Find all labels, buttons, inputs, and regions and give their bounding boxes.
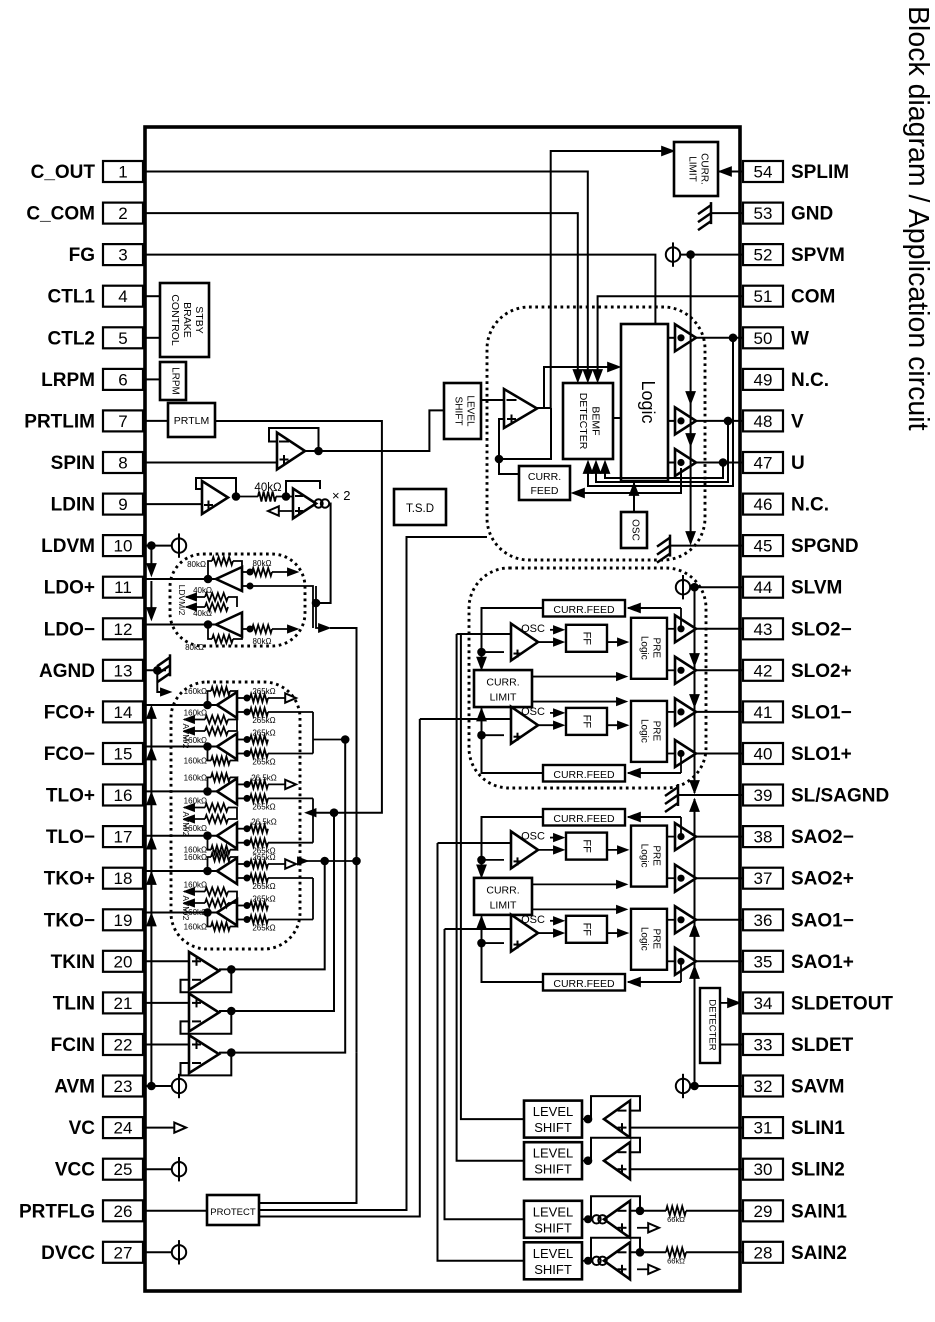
LDVM divider network (dotted) bbox=[170, 554, 305, 646]
pin 18 TKO+ bbox=[103, 868, 143, 889]
T.S.D block bbox=[394, 489, 446, 525]
PRE Logic 2 bbox=[631, 909, 667, 970]
pin 42 SLO2+ bbox=[743, 660, 783, 681]
output buffer bbox=[675, 906, 696, 933]
wire BEMF to Logic bbox=[613, 417, 621, 419]
wire pin9 LDIN to op-amp bbox=[145, 503, 202, 505]
svg-text:Logic: Logic bbox=[639, 927, 650, 951]
wire curr.feed bottom bbox=[628, 772, 681, 774]
LRPM block bbox=[160, 362, 186, 400]
feedback loop bbox=[181, 1053, 232, 1076]
svg-text:VC: VC bbox=[69, 1118, 96, 1139]
wire OSC1 out to FF bbox=[538, 849, 560, 851]
svg-text:STBY: STBY bbox=[193, 306, 205, 333]
LEVEL SHIFT block (row pin idx 27) bbox=[524, 1242, 582, 1279]
svg-text:14: 14 bbox=[114, 703, 133, 722]
svg-text:34: 34 bbox=[754, 994, 773, 1013]
svg-text:2: 2 bbox=[118, 204, 127, 223]
output buffer bbox=[675, 615, 696, 642]
pin 29 SAIN1 bbox=[743, 1200, 783, 1221]
pin 15 FCO- bbox=[103, 743, 143, 764]
svg-text:LRPM: LRPM bbox=[41, 370, 95, 391]
Logic block bbox=[621, 324, 668, 481]
svg-text:21: 21 bbox=[114, 994, 133, 1013]
svg-text:LDO−: LDO− bbox=[44, 619, 95, 640]
svg-text:30: 30 bbox=[754, 1160, 773, 1179]
wire comparator feedback to CURR.FEED bbox=[499, 408, 551, 474]
svg-text:SHIFT: SHIFT bbox=[534, 1162, 572, 1177]
svg-text:SLDET: SLDET bbox=[791, 1035, 854, 1056]
driver W bbox=[675, 324, 696, 351]
wire DETECTER to pin33 SLDET bbox=[720, 1044, 743, 1046]
wire curr.feed bottom bbox=[628, 981, 681, 983]
svg-text:18: 18 bbox=[114, 869, 133, 888]
svg-text:13: 13 bbox=[114, 661, 133, 680]
svg-text:FF: FF bbox=[580, 715, 592, 729]
OSC comparator 2 bbox=[511, 707, 538, 744]
wire pin51 COM to BEMF DETECTER bbox=[598, 296, 743, 380]
pin 24 VC bbox=[103, 1117, 143, 1138]
svg-text:TKIN: TKIN bbox=[51, 952, 95, 973]
BEMF DETECTER block bbox=[563, 383, 613, 459]
svg-text:AVM: AVM bbox=[54, 1077, 95, 1098]
svg-text:FF: FF bbox=[580, 632, 592, 646]
svg-text:160kΩ: 160kΩ bbox=[184, 757, 207, 766]
svg-text:TKO−: TKO− bbox=[44, 910, 95, 931]
wire CL to PRE1 bbox=[532, 883, 622, 885]
svg-text:Logic: Logic bbox=[638, 380, 658, 423]
svg-text:W: W bbox=[791, 328, 809, 349]
svg-text:N.C.: N.C. bbox=[791, 370, 829, 391]
svg-text:TLO+: TLO+ bbox=[46, 786, 95, 807]
FF block 1 bbox=[566, 833, 607, 860]
svg-text:16: 16 bbox=[114, 786, 133, 805]
svg-text:SAO2+: SAO2+ bbox=[791, 869, 854, 890]
wire PRE2 outputs bbox=[667, 919, 675, 921]
wire curr.feed top bbox=[628, 607, 681, 609]
svg-text:6: 6 bbox=[118, 370, 127, 389]
PRE Logic 1 bbox=[631, 618, 667, 679]
pin 31 SLIN1 bbox=[743, 1117, 783, 1138]
wire pin7 to PRTLM bbox=[145, 420, 168, 422]
svg-text:SLO1−: SLO1− bbox=[791, 702, 852, 723]
wire output to pin bbox=[696, 836, 743, 838]
input op-amp bbox=[604, 1142, 630, 1179]
svg-text:OSC: OSC bbox=[521, 706, 545, 718]
svg-text:LDO+: LDO+ bbox=[44, 578, 95, 599]
svg-text:FEED: FEED bbox=[530, 485, 558, 497]
svg-text:SAIN2: SAIN2 bbox=[791, 1243, 847, 1264]
svg-text:10: 10 bbox=[114, 537, 133, 556]
svg-text:FG: FG bbox=[69, 245, 95, 266]
svg-text:OSC: OSC bbox=[521, 831, 545, 843]
ground pin53 GND bbox=[711, 212, 743, 214]
IC outline bbox=[145, 127, 740, 1291]
OSC block (speed) bbox=[621, 512, 647, 548]
FF block 2 bbox=[566, 916, 607, 943]
ground pin39 SL/SAGND bbox=[678, 794, 743, 796]
pin 17 TLO- bbox=[103, 826, 143, 847]
svg-text:SLO2+: SLO2+ bbox=[791, 661, 852, 682]
wire pin54 SPLIM to CURR.LIMIT bbox=[718, 171, 743, 173]
wire pin17 TLO- bbox=[145, 835, 217, 837]
filter amp FCO- bbox=[217, 734, 237, 760]
wire pin21 bbox=[145, 1002, 189, 1004]
svg-text:CURR.FEED: CURR.FEED bbox=[553, 813, 615, 825]
wire comparator output to CURR.LIMIT bbox=[551, 151, 671, 408]
svg-text:AGND: AGND bbox=[39, 661, 95, 682]
svg-text:160kΩ: 160kΩ bbox=[184, 881, 207, 890]
svg-text:SLIN1: SLIN1 bbox=[791, 1118, 845, 1139]
wire pin with 66k resistor bbox=[630, 1251, 666, 1253]
svg-text:N.C.: N.C. bbox=[791, 495, 829, 516]
filter amp FCO+ bbox=[217, 692, 237, 718]
phi terminal pin27 DVCC bbox=[145, 1251, 172, 1253]
CURR. FEED block (speed) bbox=[519, 466, 570, 500]
wire LDO node to filter network riser bbox=[319, 624, 330, 633]
svg-text:37: 37 bbox=[754, 869, 773, 888]
comparator pin20 bbox=[189, 952, 219, 990]
svg-text:DETECTER: DETECTER bbox=[707, 999, 718, 1050]
svg-text:3: 3 bbox=[118, 246, 127, 265]
CURR. LIMIT block (speed) bbox=[674, 142, 718, 196]
LEVEL SHIFT block (speed) bbox=[444, 383, 481, 439]
svg-text:36: 36 bbox=[754, 911, 773, 930]
output buffer bbox=[675, 823, 696, 850]
wire OSC2 out to FF2 bbox=[538, 932, 560, 934]
svg-text:80kΩ: 80kΩ bbox=[253, 637, 272, 646]
svg-text:BRAKE: BRAKE bbox=[181, 302, 193, 338]
output riser bbox=[219, 813, 334, 1011]
svg-text:SAIN1: SAIN1 bbox=[791, 1201, 847, 1222]
phi terminal pin44 SLVM bbox=[676, 580, 690, 594]
svg-text:265kΩ: 265kΩ bbox=[252, 882, 275, 891]
svg-text:SAO1−: SAO1− bbox=[791, 910, 854, 931]
wire SL OSC1 input line bbox=[457, 634, 524, 1161]
svg-text:CURR.: CURR. bbox=[528, 471, 561, 483]
svg-text:DVCC: DVCC bbox=[41, 1243, 95, 1264]
svg-text:80kΩ: 80kΩ bbox=[187, 560, 206, 569]
svg-text:48: 48 bbox=[754, 412, 773, 431]
output buffer bbox=[675, 865, 696, 892]
svg-text:FF: FF bbox=[580, 923, 592, 937]
svg-text:80kΩ: 80kΩ bbox=[185, 643, 204, 652]
svg-text:SLDETOUT: SLDETOUT bbox=[791, 993, 893, 1014]
wire plus input bbox=[499, 419, 504, 459]
CURR. LIMIT block bbox=[474, 878, 532, 915]
svg-text:28: 28 bbox=[754, 1243, 773, 1262]
svg-text:1: 1 bbox=[118, 163, 127, 182]
pin 40 SLO1+ bbox=[743, 743, 783, 764]
svg-text:LDIN: LDIN bbox=[51, 495, 95, 516]
feedback loop bbox=[181, 969, 232, 992]
svg-text:V: V bbox=[791, 411, 804, 432]
wire pin to plus input bbox=[630, 1127, 743, 1129]
pin 43 SLO2- bbox=[743, 618, 783, 639]
output buffer bbox=[675, 948, 696, 975]
pin 48 V bbox=[743, 410, 783, 431]
svg-text:44: 44 bbox=[754, 578, 773, 597]
input op-amp bbox=[604, 1242, 630, 1279]
x2 feedback loop bbox=[286, 481, 320, 497]
pin 7 PRTLIM bbox=[103, 410, 143, 431]
output arrow bbox=[637, 1227, 650, 1229]
pair tie TKO bbox=[312, 878, 314, 920]
STBY BRAKE CONTROL block bbox=[160, 283, 209, 357]
svg-text:45: 45 bbox=[754, 537, 773, 556]
wire OSC2 out to FF2 bbox=[538, 724, 560, 726]
pin 37 SAO2+ bbox=[743, 868, 783, 889]
phi terminal pin10 LDVM bbox=[147, 541, 156, 550]
wire pin1 C_OUT to BEMF DETECTER bbox=[145, 172, 588, 381]
wire output to pin bbox=[696, 919, 743, 921]
wire pin16 TLO+ bbox=[145, 790, 217, 792]
svg-text:SL/SAGND: SL/SAGND bbox=[791, 786, 889, 807]
wire x2 output down to LDVM divider bbox=[316, 504, 331, 604]
svg-text:Logic: Logic bbox=[639, 719, 650, 743]
output riser bbox=[219, 740, 345, 1053]
wire pin6 to LRPM bbox=[145, 378, 160, 380]
wire AGND into filter network bbox=[157, 670, 164, 692]
svg-text:SPLIM: SPLIM bbox=[791, 162, 849, 183]
svg-text:C_COM: C_COM bbox=[26, 204, 95, 225]
wire CL to PRE1 bbox=[532, 676, 622, 678]
filter amp TLO+ bbox=[217, 778, 237, 804]
feedback wire to CURR.FEED bbox=[573, 468, 681, 493]
wire pin to plus input bbox=[630, 1168, 743, 1170]
pin 2 C_COM bbox=[103, 203, 143, 224]
wire comparator to Logic input bbox=[544, 367, 617, 408]
wire FF1 to PRE1 bbox=[607, 849, 624, 851]
pin 33 SLDET bbox=[743, 1034, 783, 1055]
left rail upper bbox=[482, 608, 544, 668]
wire pin5 to STBY bbox=[145, 337, 160, 339]
svg-text:SLO1+: SLO1+ bbox=[791, 744, 852, 765]
pin 49 N.C. bbox=[743, 369, 783, 390]
feedback loop bbox=[591, 1238, 640, 1261]
CURR.FEED (top) bbox=[543, 809, 625, 826]
PROTECT output 1 bbox=[259, 1052, 357, 1203]
pin 54 SPLIM bbox=[743, 161, 783, 182]
pin 36 SAO1- bbox=[743, 909, 783, 930]
svg-text:54: 54 bbox=[754, 163, 773, 182]
op-amp A1 feedback loop bbox=[269, 428, 319, 451]
wire DETECTER to pin34 SLDETOUT bbox=[720, 1002, 734, 1004]
output arrow bbox=[637, 1268, 650, 1270]
wire pin15 FCO- bbox=[145, 746, 217, 748]
pin 10 LDVM bbox=[103, 535, 143, 556]
tap TKO to riser bbox=[300, 860, 357, 862]
svg-text:29: 29 bbox=[754, 1202, 773, 1221]
svg-text:SAO1+: SAO1+ bbox=[791, 952, 854, 973]
wire FF2 to PRE2 bbox=[607, 724, 624, 726]
svg-text:38: 38 bbox=[754, 828, 773, 847]
svg-text:VCC: VCC bbox=[55, 1160, 95, 1181]
feedback loop bbox=[591, 1138, 640, 1161]
wire pin11 LDO+ bbox=[145, 578, 216, 580]
svg-text:SHIFT: SHIFT bbox=[534, 1220, 572, 1235]
svg-text:47: 47 bbox=[754, 454, 773, 473]
wire output to pin bbox=[696, 669, 743, 671]
feedback loop bbox=[591, 1096, 640, 1119]
pin 21 TLIN bbox=[103, 992, 143, 1013]
svg-text:LRPM: LRPM bbox=[170, 367, 181, 395]
FF block 1 bbox=[566, 625, 607, 652]
svg-text:32: 32 bbox=[754, 1077, 773, 1096]
pin 44 SLVM bbox=[743, 577, 783, 598]
svg-text:LEVEL: LEVEL bbox=[533, 1204, 573, 1219]
svg-text:U: U bbox=[791, 453, 805, 474]
svg-text:19: 19 bbox=[114, 911, 133, 930]
svg-text:160kΩ: 160kΩ bbox=[184, 736, 207, 745]
svg-text:160kΩ: 160kΩ bbox=[184, 709, 207, 718]
phi terminal pin23 AVM bbox=[147, 1082, 156, 1091]
svg-text:TLIN: TLIN bbox=[53, 993, 95, 1014]
svg-text:FCO+: FCO+ bbox=[44, 702, 95, 723]
wire PRE1 outputs bbox=[667, 836, 675, 838]
feedback wire U bbox=[605, 463, 723, 479]
LDVM/2 feed arrows bbox=[150, 546, 152, 574]
svg-text:35: 35 bbox=[754, 952, 773, 971]
svg-text:7: 7 bbox=[118, 412, 127, 431]
pin 4 CTL1 bbox=[103, 286, 143, 307]
wire SL OSC2 input line bbox=[420, 718, 511, 720]
pin 39 SL/SAGND bbox=[743, 785, 783, 806]
driver U bbox=[675, 449, 696, 476]
svg-text:8: 8 bbox=[118, 454, 127, 473]
DETECTER block bbox=[700, 988, 720, 1063]
wire output to pin bbox=[696, 628, 743, 630]
wire op-amp A1 output to LEVEL SHIFT bbox=[305, 410, 444, 451]
svg-text:PRE: PRE bbox=[651, 721, 662, 742]
wire PRE2 outputs bbox=[667, 711, 675, 713]
svg-text:Logic: Logic bbox=[639, 636, 650, 660]
svg-text:160kΩ: 160kΩ bbox=[184, 687, 207, 696]
CURR. LIMIT block bbox=[474, 670, 532, 707]
svg-text:GND: GND bbox=[791, 204, 833, 225]
svg-text:FF: FF bbox=[580, 839, 592, 853]
feedback loop bbox=[181, 1011, 232, 1034]
op-amp A2 (LDIN buffer) bbox=[202, 481, 228, 514]
op-amp A2 feedback loop bbox=[196, 478, 236, 497]
PRE Logic 2 bbox=[631, 701, 667, 762]
svg-text:SPIN: SPIN bbox=[51, 453, 95, 474]
svg-text:OSC: OSC bbox=[521, 623, 545, 635]
svg-text:SHIFT: SHIFT bbox=[534, 1262, 572, 1277]
svg-text:CURR.FEED: CURR.FEED bbox=[553, 604, 615, 616]
svg-text:C_OUT: C_OUT bbox=[31, 162, 96, 183]
svg-text:T.S.D: T.S.D bbox=[406, 503, 434, 515]
filter amp network (dotted) bbox=[171, 682, 300, 949]
wire driver V output to pin48 bbox=[696, 420, 743, 422]
svg-text:31: 31 bbox=[754, 1119, 773, 1138]
svg-text:SPGND: SPGND bbox=[791, 536, 859, 557]
pin 22 FCIN bbox=[103, 1034, 143, 1055]
PRE Logic 1 bbox=[631, 826, 667, 887]
phi terminal pin32 SAVM bbox=[676, 1079, 690, 1093]
wire pin8 SPIN to op-amp bbox=[145, 462, 277, 464]
wire pin12 LDO- bbox=[145, 624, 216, 626]
svg-text:LIMIT: LIMIT bbox=[490, 692, 517, 704]
pair tie TLO bbox=[312, 798, 314, 842]
svg-text:SHIFT: SHIFT bbox=[534, 1120, 572, 1135]
pin 9 LDIN bbox=[103, 494, 143, 515]
pin 41 SLO1- bbox=[743, 701, 783, 722]
PRTLM block bbox=[168, 403, 215, 437]
comparator pin22 bbox=[189, 1035, 219, 1073]
pin 51 COM bbox=[743, 286, 783, 307]
svg-text:CTL1: CTL1 bbox=[48, 287, 96, 308]
ground pin45 SPGND bbox=[670, 545, 743, 547]
svg-text:SLVM: SLVM bbox=[791, 578, 842, 599]
svg-text:× 2: × 2 bbox=[332, 488, 350, 503]
wire FF2 to PRE2 bbox=[607, 932, 624, 934]
SP driver section (dotted) bbox=[487, 307, 705, 560]
svg-text:BEMF: BEMF bbox=[590, 406, 602, 435]
svg-text:PROTECT: PROTECT bbox=[210, 1207, 256, 1218]
CURR.FEED (bottom) bbox=[543, 974, 625, 991]
pin 1 C_OUT bbox=[103, 161, 143, 182]
pin 45 SPGND bbox=[743, 535, 783, 556]
op-amp A1 (SPIN) bbox=[277, 433, 305, 470]
pin 8 SPIN bbox=[103, 452, 143, 473]
svg-text:17: 17 bbox=[114, 828, 133, 847]
svg-text:265kΩ: 265kΩ bbox=[252, 758, 275, 767]
wire SLIN1 feed line bbox=[461, 634, 524, 1119]
SL driver section (dotted) bbox=[469, 568, 706, 788]
svg-text:Block diagram / Application ci: Block diagram / Application circuit bbox=[902, 6, 934, 431]
wire comparator output bbox=[537, 407, 551, 409]
pin 5 CTL2 bbox=[103, 327, 143, 348]
svg-text:43: 43 bbox=[754, 620, 773, 639]
svg-text:265kΩ: 265kΩ bbox=[252, 802, 275, 811]
pin 26 PRTFLG bbox=[103, 1200, 143, 1221]
wire OSC1 out to FF bbox=[538, 641, 560, 643]
pin 23 AVM bbox=[103, 1076, 143, 1097]
wire pin18 TKO+ bbox=[145, 870, 217, 872]
pin 53 GND bbox=[743, 203, 783, 224]
pin 30 SLIN2 bbox=[743, 1159, 783, 1180]
svg-text:COM: COM bbox=[791, 287, 835, 308]
input op-amp bbox=[604, 1201, 630, 1238]
pair tie FCO bbox=[312, 712, 314, 754]
pin 38 SAO2- bbox=[743, 826, 783, 847]
filter amp TKO+ bbox=[217, 858, 237, 884]
LDO+ plus node bbox=[242, 585, 250, 587]
svg-text:LEVEL: LEVEL bbox=[533, 1104, 573, 1119]
pin 13 AGND bbox=[103, 660, 143, 681]
wire driver U output to pin47 bbox=[696, 462, 743, 464]
pin 16 TLO+ bbox=[103, 785, 143, 806]
svg-text:23: 23 bbox=[114, 1077, 133, 1096]
LDO+ amp bbox=[216, 567, 242, 591]
PROTECT block bbox=[207, 1195, 259, 1225]
wire LEVEL SHIFT to comparator bbox=[481, 399, 504, 401]
output riser bbox=[219, 861, 325, 969]
svg-text:33: 33 bbox=[754, 1036, 773, 1055]
pin 20 TKIN bbox=[103, 951, 143, 972]
wire pin3 FG to Logic bbox=[145, 255, 655, 324]
wire pin19 TKO- bbox=[145, 912, 217, 914]
svg-text:11: 11 bbox=[114, 578, 132, 597]
SLVM rail down to SL/SAGND bbox=[694, 587, 696, 793]
input op-amp bbox=[604, 1101, 630, 1138]
svg-text:LEVEL: LEVEL bbox=[465, 395, 476, 427]
output buffer bbox=[675, 740, 696, 767]
wire SPVM power rail down to SPGND bbox=[690, 255, 692, 543]
svg-text:160kΩ: 160kΩ bbox=[184, 824, 207, 833]
svg-text:66kΩ: 66kΩ bbox=[667, 1256, 685, 1265]
